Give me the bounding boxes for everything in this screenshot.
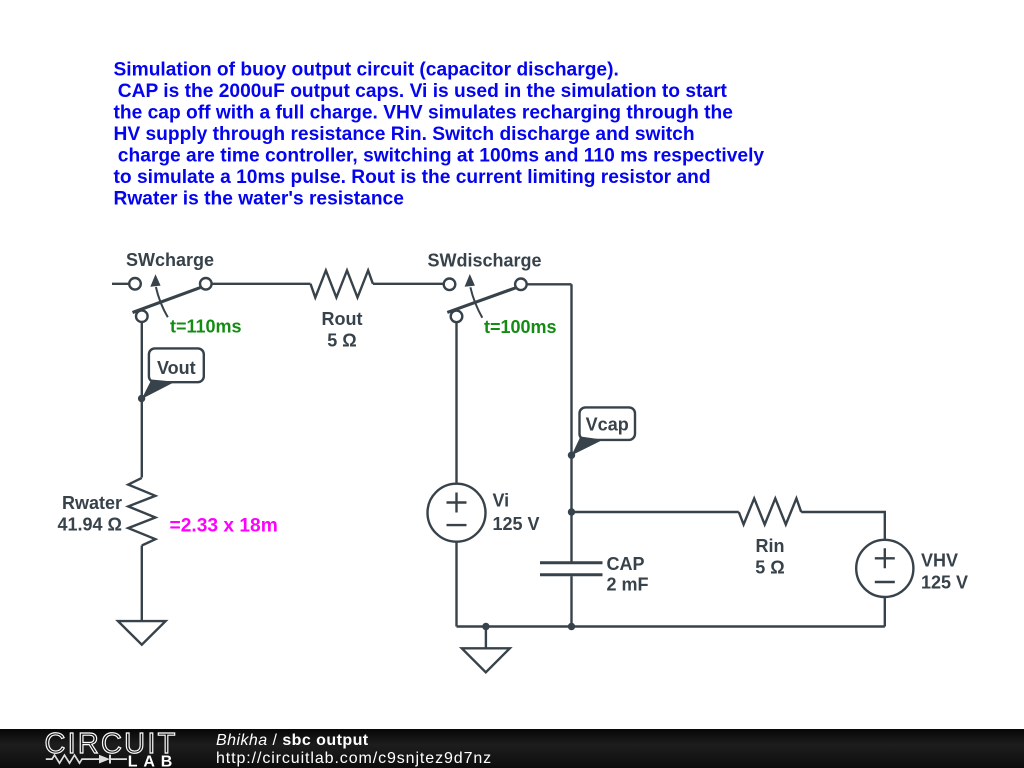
svg-text:LAB: LAB (128, 753, 178, 768)
svg-text:CAP: CAP (607, 554, 645, 574)
resistor Rwater (128, 478, 155, 546)
wire Rout to SWdischarge (373, 283, 444, 285)
svg-text:CAP is the 2000uF output caps.: CAP is the 2000uF output caps. Vi is use… (118, 81, 728, 102)
svg-text:t=110ms: t=110ms (170, 317, 242, 337)
voltage source VHV (856, 540, 913, 597)
wire VHV to rail (884, 597, 886, 627)
svg-text:charge are time controller, sw: charge are time controller, switching at… (118, 146, 765, 167)
svg-text:41.94 Ω: 41.94 Ω (58, 514, 122, 534)
footer url line (216, 750, 492, 768)
wire right vertical (to capacitor) (570, 284, 572, 563)
svg-text:Vout: Vout (157, 358, 196, 378)
node Vout dot (138, 395, 145, 402)
resistor Rout (311, 270, 373, 297)
capacitor CAP (540, 563, 603, 575)
wire SWdischarge to right corner (527, 283, 572, 285)
switch SWdischarge (444, 274, 527, 322)
ground (middle) (462, 648, 510, 672)
svg-text:Vcap: Vcap (586, 415, 629, 435)
node cap junction dot (568, 623, 575, 630)
svg-text:Simulation of buoy output circ: Simulation of buoy output circuit (capac… (114, 59, 619, 80)
node Vcap dot (568, 452, 575, 459)
annotation text block (114, 59, 765, 209)
footer bar (0, 729, 1024, 768)
svg-text:HV supply through resistance R: HV supply through resistance Rin. Switch… (114, 124, 695, 145)
wire bottom rail (457, 625, 885, 627)
svg-text:Vi: Vi (493, 491, 510, 511)
node ground junction dot (482, 623, 489, 630)
svg-text:=2.33 x 18m: =2.33 x 18m (170, 516, 278, 537)
wire cap to rail (570, 576, 572, 626)
svg-text:Rin: Rin (756, 536, 785, 556)
wire SWcharge to Rwater (141, 322, 143, 478)
resistor Rin (739, 498, 801, 524)
svg-text:Rwater: Rwater (62, 493, 122, 513)
wire ground stub (middle) (485, 627, 487, 649)
svg-text:125 V: 125 V (921, 572, 968, 592)
wire SWcharge to Rout (212, 283, 311, 285)
ground (left) (118, 621, 166, 645)
wire Rwater to ground (141, 546, 143, 621)
svg-text:to simulate a 10ms pulse. Rout: to simulate a 10ms pulse. Rout is the cu… (114, 167, 711, 188)
footer author/title line (216, 732, 369, 750)
svg-text:Rout: Rout (322, 309, 363, 329)
wire Rin to VHV corner (801, 512, 885, 540)
flag Vout (142, 348, 204, 399)
node junction dot (cap top / Rin) (568, 508, 575, 515)
svg-text:5 Ω: 5 Ω (327, 331, 356, 351)
svg-text:2 mF: 2 mF (607, 574, 649, 594)
voltage source Vi (428, 484, 486, 542)
svg-text:t=100ms: t=100ms (484, 317, 557, 337)
switch SWcharge (129, 274, 211, 322)
svg-text:the cap off with a full charge: the cap off with a full charge. VHV simu… (114, 103, 734, 124)
logo CIRCUIT LAB (0, 729, 200, 768)
wire stub left of SWcharge (112, 283, 129, 285)
svg-text:Rwater is the water's resistan: Rwater is the water's resistance (114, 189, 405, 210)
flag Vcap (572, 407, 636, 455)
wire SWdischarge to Vi (455, 322, 457, 484)
svg-text:VHV: VHV (921, 550, 958, 570)
svg-text:5 Ω: 5 Ω (755, 558, 784, 578)
wire Vi to rail (455, 542, 457, 627)
svg-text:125 V: 125 V (493, 514, 540, 534)
svg-text:SWcharge: SWcharge (126, 250, 214, 270)
svg-text:SWdischarge: SWdischarge (428, 251, 542, 271)
wire junction to Rin (572, 511, 739, 513)
